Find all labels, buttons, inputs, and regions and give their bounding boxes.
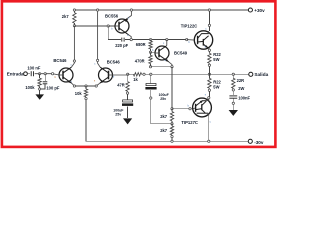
svg-text:2k7: 2k7 (160, 114, 168, 119)
svg-text:680R: 680R (136, 42, 146, 47)
label BC546 left (53, 58, 67, 63)
svg-text:22R: 22R (237, 78, 245, 83)
wire TIP122C emitter to R22 (208, 48, 210, 53)
pin e TIP122C (205, 45, 207, 48)
svg-text:47R: 47R (117, 83, 125, 88)
pin c BC556 (128, 16, 130, 19)
svg-text:25v: 25v (115, 113, 121, 117)
svg-text:TIP127C: TIP127C (181, 120, 198, 125)
ground feedback leg (123, 118, 132, 124)
svg-text:BC556: BC556 (105, 13, 119, 18)
node 680R top junction (149, 38, 151, 40)
node BC549 emitter junction (171, 66, 173, 68)
pin b TIP127C (188, 104, 190, 107)
wire 470R bottom to BC549 emitter (151, 66, 173, 68)
label +30v (254, 8, 265, 13)
node 680R 470R junction (149, 51, 151, 53)
node TIP122C collector on rail (208, 9, 210, 11)
label Salida (254, 72, 268, 77)
label 25v (feedback) (115, 113, 121, 117)
label 470R (135, 58, 145, 63)
capacitor C 100nF (zobel) (229, 91, 237, 102)
transistor Q BC546 (right of pair, mirrored) (96, 11, 112, 86)
wire bias node to TIP127C base (172, 108, 193, 110)
label 220 pF (115, 43, 128, 48)
resistor R 47R (feedback leg) (126, 74, 129, 92)
pin circle 47R bottom (126, 92, 128, 94)
svg-text:220 pF: 220 pF (115, 43, 128, 48)
label 2k7 (bias upper) (160, 114, 168, 119)
transistor U BC556 (PNP) (115, 11, 131, 40)
pin c BC546 right (94, 63, 96, 66)
resistor R 680R (149, 40, 152, 53)
pin b TIP122C (189, 41, 191, 44)
node TIP127C collector on rail (208, 140, 210, 142)
capacitor C 100nF input coupling (31, 71, 33, 76)
label R22 (upper) (213, 52, 221, 57)
transistor Q BC549 (driver) (151, 40, 173, 67)
resistor R 470R (149, 52, 152, 67)
node 1k right end (143, 73, 145, 75)
node emitter rail mid (85, 85, 87, 87)
svg-text:100 nF: 100 nF (27, 65, 40, 70)
node bias chain mid (171, 123, 173, 125)
transistor Q TIP122C (NPN darlington) (187, 31, 213, 49)
label 100nF (zobel) (238, 96, 250, 101)
pin c TIP122C (205, 28, 207, 31)
label BC549 (174, 51, 188, 56)
pin e BC549 (165, 59, 167, 62)
node TIP122C base junction (186, 38, 188, 40)
wire 2k7 bottom to BC556 base (74, 25, 115, 27)
label -30v (254, 140, 264, 145)
node input net 1 (38, 73, 40, 75)
pin b BC556 (111, 28, 113, 31)
svg-text:BC549: BC549 (174, 51, 188, 56)
terminal Salida output (249, 72, 253, 76)
wire 220pF line left segment (108, 39, 121, 41)
pin circle BC546 left collector (73, 60, 75, 62)
resistor R 2k7 (upper left) (73, 9, 76, 27)
node bootstrap cap top (150, 73, 152, 75)
label 2k7 (upper left) (62, 14, 70, 19)
svg-text:25v: 25v (160, 97, 166, 101)
transistor Q BC546 (left of pair) (59, 26, 74, 86)
wire BC546 right base to feedback node (113, 73, 130, 76)
svg-text:100nF: 100nF (238, 96, 250, 101)
wire 220pF line right segment (125, 39, 187, 41)
terminal Entrada input (24, 72, 28, 76)
node output to zobel junction (232, 73, 234, 75)
capacitor C 100pF (input filter) (41, 74, 48, 89)
pin c BC546 left (71, 63, 73, 66)
svg-text:2W: 2W (238, 86, 244, 91)
node BC556 collector on rail (130, 9, 132, 11)
pin c TIP127C (210, 121, 212, 124)
label Entrada (7, 71, 24, 76)
label 100uF (bootstrap) (159, 93, 170, 97)
capacitor C 100uF 25v (bootstrap, electrolytic) (145, 74, 172, 123)
wire coupling cap to BC546 base (35, 74, 59, 75)
svg-text:-30v: -30v (254, 140, 264, 145)
svg-text:10k: 10k (75, 91, 83, 96)
node output to R22 junction (208, 73, 210, 75)
label 22R (237, 78, 245, 83)
label 680R (136, 42, 146, 47)
pin circle BC546 right collector (96, 59, 98, 61)
node emitter rail right (95, 85, 97, 87)
transistor Q TIP127C (PNP darlington) (193, 98, 212, 117)
svg-text:100k: 100k (25, 85, 35, 90)
node 470R bottom (149, 66, 151, 68)
svg-text:Entrada: Entrada (7, 71, 24, 76)
pin e BC546 right (94, 79, 96, 82)
label 1k (133, 77, 138, 82)
wire -30v bottom supply rail (86, 140, 248, 142)
resistor R 10k (tail) (84, 86, 87, 141)
capacitor C 100uF 25v (feedback leg, electrolytic) (122, 94, 133, 118)
label 2W (238, 86, 244, 91)
node bias chain on rail (171, 140, 173, 142)
wire +30v top supply rail (74, 9, 248, 11)
pin b BC546 left (55, 76, 57, 79)
wire TIP127C emitter to R22 (208, 97, 210, 101)
wire output line (144, 73, 249, 75)
label BC556 (105, 13, 119, 18)
label BC546 right (107, 59, 121, 64)
svg-text:TIP122C: TIP122C (181, 24, 198, 29)
node emitter rail left (73, 85, 75, 87)
svg-text:BC546: BC546 (53, 58, 67, 63)
label 100 nF (27, 65, 40, 70)
capacitor C 220pF (122, 38, 124, 42)
node 100k bottom (38, 88, 40, 90)
resistor R 22R 2W (zobel) (232, 74, 235, 91)
wire diff pair emitter rail (74, 85, 96, 87)
label 5W (upper) (213, 57, 219, 62)
resistor R 100k (input bias) (38, 74, 41, 89)
label 5W (lower) (213, 84, 219, 89)
resistor R 1k (feedback) (128, 73, 144, 76)
svg-text:5W: 5W (213, 57, 219, 62)
label 47R (117, 83, 125, 88)
pin e TIP127C (205, 93, 207, 96)
resistor R 2k7 (bias upper) (170, 109, 173, 124)
pin b BC546 right (113, 76, 115, 79)
label 2k7 (bias lower) (160, 128, 168, 133)
resistor R R22 5W (lower) (208, 74, 211, 96)
pin circle TIP127C base (189, 108, 191, 110)
node bias chain top (171, 108, 173, 110)
terminal -30v (248, 139, 252, 143)
node input net 2 (44, 73, 46, 75)
label 100k (25, 85, 35, 90)
svg-text:5W: 5W (213, 84, 219, 89)
svg-text:+30v: +30v (254, 8, 265, 13)
pin e BC556 (127, 34, 129, 37)
label 100 pF (46, 85, 59, 90)
pin c BC549 (163, 42, 165, 45)
svg-text:2k7: 2k7 (160, 128, 168, 133)
ground zobel (229, 104, 238, 116)
label 10k (75, 91, 83, 96)
wire TIP127C collector to -30v rail (208, 116, 210, 142)
svg-text:1k: 1k (133, 77, 138, 82)
terminal +30v (248, 8, 252, 12)
svg-text:470R: 470R (135, 58, 145, 63)
svg-text:BC546: BC546 (107, 59, 121, 64)
label 25v (bootstrap) (160, 97, 166, 101)
label TIP127C (181, 120, 198, 125)
resistor R 2k7 (bias lower) (170, 124, 173, 142)
label 100uF (feedback) (113, 109, 124, 113)
resistor R R22 5W (upper) (208, 53, 211, 74)
wire base node down to 220pF line (107, 26, 109, 40)
node feedback junction (127, 73, 129, 75)
ground input network (35, 90, 44, 100)
svg-text:Salida: Salida (254, 72, 268, 77)
node BC556 emitter junction (130, 38, 132, 40)
node zobel cap bottom (232, 102, 234, 104)
node input net 3 (51, 73, 53, 75)
pin b BC549 (152, 49, 154, 52)
node BC549 collector junction (166, 38, 168, 40)
node BC546 right collector on rail (96, 9, 98, 11)
svg-text:100 pF: 100 pF (46, 85, 59, 90)
wire BC549 emitter down to bias chain (171, 67, 173, 109)
pin e BC546 left (71, 80, 73, 83)
svg-text:2k7: 2k7 (62, 14, 70, 19)
node base divider junction (107, 25, 109, 27)
wire input to coupling cap (27, 73, 30, 75)
wire TIP122C collector to +30v rail (208, 10, 210, 31)
label TIP122C (181, 24, 198, 29)
label R22 (lower) (213, 79, 221, 84)
